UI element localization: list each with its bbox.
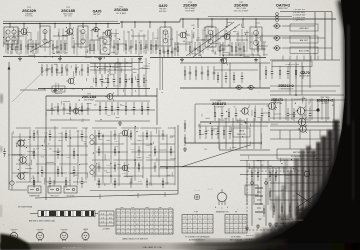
wire texture 288 <box>82 118 84 122</box>
label TR3 2SC480 <box>114 7 128 15</box>
interstage transformer T8 <box>90 165 96 175</box>
wire texture 298 <box>200 134 204 136</box>
resistor RH4 <box>254 108 256 121</box>
svg-text:7.5: 7.5 <box>226 231 229 233</box>
resistor Rmb2 <box>130 130 132 140</box>
capacitor Cdet23 <box>241 72 244 83</box>
table voltage chart <box>116 209 173 234</box>
resistor Rrb3 <box>297 203 299 215</box>
wire det top link <box>280 11 332 13</box>
svg-text:2.1: 2.1 <box>199 217 202 219</box>
wire texture 22 <box>56 51 60 53</box>
resistor Rpwr chain 3 <box>275 168 277 181</box>
wire block left <box>45 96 47 200</box>
svg-text:8.4: 8.4 <box>146 232 149 234</box>
wire mesh-a v9 <box>85 128 87 180</box>
svg-text:5P: 5P <box>234 107 236 109</box>
svg-text:DC IN 9V: DC IN 9V <box>67 196 75 198</box>
wire texture 124 <box>263 54 268 56</box>
junction texture junction 226 <box>295 103 296 104</box>
svg-text:4.7k: 4.7k <box>98 133 101 135</box>
wire top col 21 <box>128 32 130 52</box>
ground Grb0 <box>274 222 278 226</box>
bottom scan band <box>0 243 360 250</box>
wire texture 52 <box>10 51 12 54</box>
svg-text:1K: 1K <box>55 48 57 50</box>
junction texture junction 251 <box>100 79 101 80</box>
wire texture 269 <box>80 109 89 111</box>
pinout view OA70 <box>82 230 89 241</box>
wire texture 176 <box>171 172 173 176</box>
wire texture 129 <box>244 32 249 34</box>
junction texture junction 214 <box>70 138 71 139</box>
wire mesh-b h6.1 <box>124 175 143 177</box>
resistor Rdet2 <box>279 66 281 79</box>
svg-text:2SC184: 2SC184 <box>82 94 97 99</box>
wire long horizontal <box>160 166 336 168</box>
capacitor Cdrv5 <box>229 126 232 139</box>
junction texture junction 109 <box>226 30 227 31</box>
wire IF link vb <box>162 58 164 90</box>
svg-text:33K: 33K <box>44 57 47 59</box>
wire texture 59 <box>63 35 67 37</box>
wire texture 254 <box>115 63 122 65</box>
wire link seg 11 <box>236 39 248 41</box>
wire texture 6 <box>52 56 54 58</box>
resistor Rstage0 <box>99 102 101 115</box>
svg-text:100P: 100P <box>167 175 171 177</box>
capacitor Cm7 <box>41 166 44 177</box>
wire texture 313 <box>280 159 288 161</box>
svg-text:220: 220 <box>145 80 148 82</box>
svg-text:1ST IF AMP: 1ST IF AMP <box>116 12 127 15</box>
svg-text:6.3: 6.3 <box>235 231 238 233</box>
wire texture 290 <box>80 121 82 122</box>
svg-text:2SC400: 2SC400 <box>60 229 68 231</box>
wire det box top <box>205 35 310 37</box>
svg-text:8.4: 8.4 <box>150 224 153 226</box>
svg-text:1.2: 1.2 <box>239 231 242 233</box>
wire texture 169 <box>123 176 132 178</box>
wire pwr v0 <box>246 160 248 205</box>
label box AGC <box>290 47 318 54</box>
wire texture 106 <box>252 54 254 57</box>
resistor R16 <box>117 40 119 54</box>
svg-text:0.02: 0.02 <box>245 50 248 52</box>
capacitor Cdet1 <box>271 66 274 79</box>
resistor RG4 <box>207 66 209 80</box>
table dial positions <box>99 211 114 226</box>
wire top col 43 <box>246 30 248 49</box>
label TR7 2SC184 <box>82 94 97 102</box>
wire texture 227 <box>289 113 296 115</box>
svg-text:1.2: 1.2 <box>155 232 158 234</box>
wire IF link v1 <box>124 58 126 96</box>
svg-text:100P: 100P <box>198 55 202 57</box>
wire top col 2 <box>18 28 20 51</box>
wire texture 177 <box>155 128 157 133</box>
resistor Rmb5 <box>98 146 100 156</box>
resistor RH8 <box>293 108 295 121</box>
wire texture 91 <box>110 73 113 75</box>
scan shadow streak 1 <box>288 170 293 218</box>
scan shadow streak 6 <box>316 142 321 214</box>
wire link seg 0 <box>8 35 24 37</box>
junction J drv2 <box>244 121 246 123</box>
wire texture 115 <box>186 41 192 43</box>
capacitor CH9 <box>309 108 312 121</box>
svg-text:2SB177: 2SB177 <box>136 157 144 159</box>
resistor R35 <box>257 42 259 56</box>
scan shadow streak 9 <box>333 120 339 208</box>
svg-text:0.01: 0.01 <box>269 165 272 167</box>
resistor Rrb4 <box>305 203 307 215</box>
junction texture junction 98 <box>223 55 224 56</box>
svg-text:4.8: 4.8 <box>204 231 207 233</box>
resistor Rmb9 <box>170 146 172 156</box>
wire texture 79 <box>132 68 139 70</box>
capacitor Cmb13 <box>154 162 157 172</box>
wire L v2 <box>299 130 301 139</box>
resistor Rstg23 <box>69 103 71 115</box>
wire F v0 <box>94 63 96 74</box>
wire texture 312 <box>275 176 277 181</box>
svg-text:1.4: 1.4 <box>160 228 163 230</box>
resistor R14 <box>93 40 95 54</box>
wire texture 193 <box>31 160 33 165</box>
wire texture 172 <box>129 133 131 137</box>
wire link seg 5 <box>114 43 126 45</box>
wire texture 278 <box>63 100 70 102</box>
resistor Rpwr chain 0 <box>251 168 253 181</box>
wire mesh-b v3 <box>118 133 120 186</box>
resistor Rmb11 <box>114 162 116 172</box>
resistor Rstg25 <box>81 103 83 115</box>
resistor R22 <box>150 40 152 54</box>
svg-text:4.7k: 4.7k <box>66 157 69 159</box>
svg-text:1ST AF AMP: 1ST AF AMP <box>214 106 226 109</box>
svg-text:100P: 100P <box>169 137 173 139</box>
wire texture 69 <box>139 67 148 69</box>
junction texture junction 119 <box>228 45 229 46</box>
resistor R pwr2 <box>263 205 265 217</box>
svg-text:5P: 5P <box>28 139 30 141</box>
wire top supply bus left <box>3 23 120 25</box>
junction texture junction 32 <box>3 37 4 38</box>
capacitor C2ndb1 <box>81 64 84 76</box>
svg-text:LW: LW <box>132 207 135 209</box>
capacitor Cdrv1 <box>205 126 208 139</box>
junction bus junction 0 <box>9 23 10 24</box>
junction texture junction 299 <box>242 136 243 137</box>
junction texture junction 16 <box>131 29 132 30</box>
resistor R2 <box>11 40 13 54</box>
wire stage2 bottom bus <box>50 119 90 121</box>
ground G7 <box>254 58 258 62</box>
svg-text:7.5: 7.5 <box>204 221 207 223</box>
wire texture 216 <box>18 140 26 142</box>
svg-text:2.2K: 2.2K <box>203 30 206 32</box>
svg-text:6.3: 6.3 <box>209 226 212 228</box>
svg-text:0.6: 0.6 <box>150 232 153 234</box>
wire det tick 2 <box>296 56 298 61</box>
scan shadow streak 8 <box>327 130 333 210</box>
svg-text:0.01: 0.01 <box>263 42 266 44</box>
resistor R28 <box>199 42 201 56</box>
svg-text:2.1: 2.1 <box>136 232 139 234</box>
svg-text:2ND OSC IF AMP: 2ND OSC IF AMP <box>234 9 249 12</box>
scan shadow streak 13 <box>270 225 290 243</box>
wire top supply bus left upper <box>3 20 118 22</box>
capacitor C6 <box>32 40 35 54</box>
wire top col 18 <box>110 32 112 48</box>
wire top col 27 <box>157 29 159 50</box>
wire texture 319 <box>298 192 300 196</box>
svg-text:5P: 5P <box>198 125 200 127</box>
wire mesh-b v5 <box>134 126 136 180</box>
wire top col 36 <box>207 28 209 50</box>
svg-text:7.5: 7.5 <box>183 231 186 233</box>
junction texture junction 70 <box>110 66 111 67</box>
svg-text:0.1: 0.1 <box>230 221 233 223</box>
svg-text:2.2K: 2.2K <box>260 165 263 167</box>
svg-text:4.7k: 4.7k <box>130 149 133 151</box>
wire H v1 <box>289 62 291 95</box>
wire drop 15 <box>211 19 213 28</box>
junction texture junction 207 <box>18 169 19 170</box>
wire texture 297 <box>219 144 221 150</box>
wire IF link v4 <box>145 58 147 96</box>
wire top col 4 <box>30 32 32 53</box>
ground Grb2 <box>290 222 294 226</box>
wire tick t1 <box>99 194 101 199</box>
wire stage bottom bus <box>95 120 150 122</box>
transistor TR4 2SC480 <box>178 31 187 39</box>
wire texture 208 <box>74 174 78 176</box>
resistor R29 <box>219 42 221 56</box>
junction bus junction 5 <box>82 23 83 24</box>
wire block right upper <box>156 88 158 125</box>
transistor TR13 AF <box>16 172 25 180</box>
wire texture 261 <box>135 76 137 80</box>
wire top col 13 <box>80 31 82 49</box>
svg-text:2.2K: 2.2K <box>115 146 118 148</box>
svg-text:0.6: 0.6 <box>117 220 120 222</box>
wire texture 39 <box>89 50 96 52</box>
svg-text:OA70: OA70 <box>93 10 102 14</box>
wire tp drop <box>177 125 179 194</box>
wire mesh-a v7 <box>69 130 71 181</box>
wire out col 2 <box>285 98 287 120</box>
diode D7 bias <box>235 85 243 89</box>
svg-text:FERRITE: FERRITE <box>55 93 63 95</box>
wire top col 37 <box>212 30 214 53</box>
capacitor CH1 <box>221 108 224 121</box>
resistor R8 <box>52 40 54 54</box>
svg-text:6.3: 6.3 <box>136 228 139 230</box>
wire K h2 <box>219 149 270 151</box>
wire left antenna line <box>8 62 10 190</box>
wire texture 121 <box>205 34 207 39</box>
wire pwr h168 <box>248 167 296 169</box>
wire texture 103 <box>240 24 242 27</box>
capacitor Cm5 <box>57 148 60 159</box>
svg-text:8.4: 8.4 <box>230 231 233 233</box>
svg-text:6.3: 6.3 <box>146 228 149 230</box>
resistor R2nd0 <box>41 64 43 76</box>
wire mesh-a h3.2 <box>48 154 77 156</box>
capacitor Cstage7 <box>147 102 150 115</box>
capacitor Cstg26 <box>87 103 90 115</box>
svg-text:0.047: 0.047 <box>164 31 168 33</box>
ferrite antenna coil L1 <box>4 27 18 44</box>
junction bus junction 13 <box>197 18 198 19</box>
wire top col 7 <box>49 29 51 55</box>
wire texture 150 <box>251 110 253 117</box>
battery terminal + <box>251 182 254 185</box>
svg-text:OSC: OSC <box>120 207 125 209</box>
wire texture 132 <box>213 42 218 44</box>
svg-text:0.02: 0.02 <box>97 180 100 182</box>
junction texture junction 185 <box>136 131 137 132</box>
junction texture junction 248 <box>297 110 298 111</box>
wire texture 231 <box>271 123 278 125</box>
resistor Rdet4 <box>295 66 297 79</box>
wire texture 46 <box>28 54 34 56</box>
wire texture 285 <box>45 112 47 116</box>
wire texture 309 <box>211 128 219 130</box>
svg-text:SW: SW <box>158 207 161 209</box>
wire drop 6 <box>82 24 84 28</box>
resistor RG2 <box>195 66 197 80</box>
junction bus junction 7 <box>107 23 108 24</box>
wire out v1 <box>317 100 319 122</box>
resistor R34 <box>243 42 245 56</box>
wire link seg 9 <box>196 39 210 41</box>
svg-text:+ — +: + — + <box>194 190 200 192</box>
wire H bus <box>270 94 344 96</box>
resistor R1 <box>7 40 9 54</box>
wire drop 5 <box>69 24 71 28</box>
wire out h118 <box>270 117 330 119</box>
resistor Rt42 <box>167 47 169 57</box>
capacitor CG5 <box>213 66 216 80</box>
wire top col 39 <box>224 29 226 50</box>
transistor TR det inner <box>219 57 227 65</box>
junction bus junction 8 <box>121 21 122 22</box>
svg-text:2SC480: 2SC480 <box>36 229 44 231</box>
wire L v5 <box>329 130 331 149</box>
svg-text:2.1: 2.1 <box>169 220 172 222</box>
junction texture junction 133 <box>197 49 198 50</box>
svg-text:IF 455kC: IF 455kC <box>209 247 218 249</box>
svg-text:SW VOLT: SW VOLT <box>246 235 255 237</box>
svg-text:10K: 10K <box>298 106 301 108</box>
junction texture junction 95 <box>257 44 258 45</box>
junction bus junction 2 <box>39 23 40 24</box>
wire mesh-b h5.3 <box>159 167 175 169</box>
wire G v2 <box>229 63 231 88</box>
transistor TR3 2SC480 <box>103 29 112 37</box>
svg-text:1K: 1K <box>139 86 141 88</box>
wire texture 76 <box>55 83 57 89</box>
wire F h2 <box>90 69 132 71</box>
svg-text:4.7k: 4.7k <box>146 157 149 159</box>
svg-text:100P: 100P <box>90 30 94 32</box>
wire L h1 <box>270 129 340 131</box>
transistor TR15 AF driver <box>120 164 129 172</box>
scan shadow streak 19 <box>262 228 276 242</box>
wire drop 7 <box>95 24 97 28</box>
svg-text:1ST OSC: 1ST OSC <box>64 16 72 18</box>
svg-text:1.2: 1.2 <box>230 217 233 219</box>
wire texture 161 <box>156 158 158 161</box>
junction Jm2 <box>61 154 63 156</box>
svg-text:RATIO DET: RATIO DET <box>278 7 289 10</box>
svg-text:1K: 1K <box>48 143 50 145</box>
wire det inner h <box>214 69 258 71</box>
IF transformer T3 <box>100 37 110 54</box>
wire mesh-b h5.1 <box>117 167 139 169</box>
wire texture 259 <box>135 90 137 92</box>
wire texture 138 <box>255 22 260 24</box>
wire mesh-a h4.2 <box>59 163 77 165</box>
wire texture 97 <box>233 30 237 32</box>
wire texture 2 <box>14 46 16 52</box>
wire out col 3 <box>291 98 293 120</box>
wire texture 99 <box>219 50 225 52</box>
ground G6 <box>220 58 224 62</box>
wire texture 317 <box>284 210 286 215</box>
resistor Rdet0 <box>265 66 267 79</box>
svg-text:C 30PF NPO: C 30PF NPO <box>293 20 305 22</box>
wire texture 336 <box>248 163 250 169</box>
resistor R2nd2 <box>51 64 53 76</box>
wire texture 146 <box>214 105 216 112</box>
resistor R pwr1 <box>269 188 271 200</box>
svg-text:10K: 10K <box>32 153 35 155</box>
wire top col 20 <box>123 30 125 51</box>
wire F v2 <box>104 63 106 74</box>
svg-text:1.2: 1.2 <box>122 228 125 230</box>
transistor TR5 2SC400 <box>222 32 231 40</box>
svg-text:0.6: 0.6 <box>141 215 144 217</box>
wire texture 339 <box>256 159 260 161</box>
wire mesh-b v9 <box>166 134 168 185</box>
wire pwr v1 <box>253 160 255 205</box>
junction texture junction 238 <box>280 103 281 104</box>
wire texture 0 <box>57 32 59 36</box>
transistor TR12 AF <box>18 156 27 164</box>
junction texture junction 245 <box>304 98 305 99</box>
svg-text:AM DET: AM DET <box>300 39 309 42</box>
wire texture 15 <box>11 49 19 51</box>
polarity mark circle <box>194 194 200 200</box>
svg-text:6.3: 6.3 <box>165 224 168 226</box>
resistor Rmb3 <box>146 130 148 140</box>
wire L v3 <box>309 130 311 149</box>
transistor TR1 2SC429 <box>19 27 28 35</box>
resistor Rpwr chain 2 <box>269 168 271 181</box>
wire texture 49 <box>104 43 111 45</box>
wire texture 237 <box>293 98 300 100</box>
note box battery <box>277 149 332 159</box>
wire top col 24 <box>143 34 145 53</box>
wire mesh-a v1 <box>19 133 21 178</box>
junction Jmb0 <box>102 135 104 137</box>
wire mesh-b h3.2 <box>154 151 175 153</box>
svg-text:6.3: 6.3 <box>155 211 158 213</box>
